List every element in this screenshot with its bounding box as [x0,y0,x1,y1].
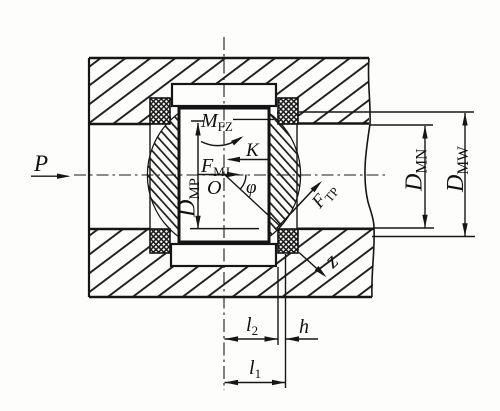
bonnet recess white top [171,83,277,125]
phi angle arc [241,175,247,189]
ball left crescent hatch [140,104,179,246]
horizontal centerline [74,174,388,176]
svg-text:O: O [207,177,221,199]
phi ray from O [225,175,282,228]
h extension line [285,254,287,388]
body outline top [89,57,369,59]
ball right crescent hatch [269,104,309,246]
channel top edge right [297,122,369,124]
M_FZ moment arc [201,138,241,146]
z leader arrow [299,253,324,276]
h dimension arrow [286,338,319,340]
svg-text:P: P [33,151,48,176]
svg-text:K: K [245,140,260,161]
body bottom block (hatched) [89,229,373,297]
ball [148,99,300,251]
bonnet recess white bottom [171,228,277,267]
l2 extension line [277,267,279,345]
F_TP force arrow [277,184,320,229]
D_MN bottom extension line [374,227,434,229]
body top block (hatched) [89,58,369,124]
top cap [172,84,276,106]
seat far-edge line right [296,124,298,229]
l1 dimension [225,382,286,384]
bottom cap [171,244,276,266]
svg-text:h: h [299,316,309,338]
svg-text:φ: φ [246,177,257,198]
D_MP dimension line with arrows [197,123,199,228]
body outline bottom [89,296,372,298]
D_MW bottom extension line [372,236,475,238]
l2 dimension [225,338,279,340]
channel bottom edge left [89,228,151,230]
seal top-left [150,98,170,124]
ball port bore [179,108,269,242]
D_MW top extension line [298,111,474,113]
D_MN dimension line [424,126,426,228]
D_MP top opening line (2 segments) [191,119,274,121]
seal bottom-left [150,229,170,253]
D_MW dimension line [464,113,466,236]
seal bottom-right [278,229,298,253]
K arrow [229,159,269,161]
D_MN top extension line [370,124,433,126]
body outline left [88,58,90,297]
D_MP bottom opening line [190,228,259,230]
seal top-right [278,98,298,124]
vertical centerline [223,37,225,390]
F_MJ force arrow [198,174,237,176]
channel top edge left [89,123,151,125]
body break line right [365,58,374,297]
P force arrow [31,175,68,177]
seat far-edge line left [149,124,151,229]
channel bottom edge right [297,228,374,231]
